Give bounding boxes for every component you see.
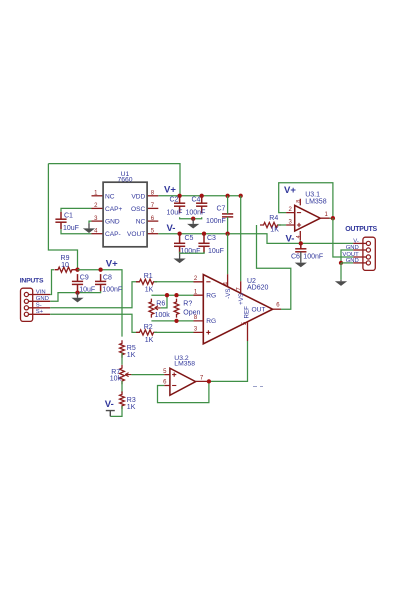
U3.1 pin stubs [286, 213, 329, 225]
IC U1 7660 body [103, 182, 147, 247]
svg-text:100nF: 100nF [303, 254, 323, 261]
svg-text:C4: C4 [192, 197, 201, 204]
wire V+ left loop down to R9 node [48, 164, 77, 270]
svg-text:7: 7 [237, 287, 243, 291]
svg-text:100nF: 100nF [206, 218, 226, 225]
wire AD620 OUT up to R4 [257, 225, 291, 309]
connector INPUTS body [21, 288, 33, 321]
svg-text:5: 5 [163, 369, 167, 375]
svg-text:GND: GND [36, 296, 49, 302]
svg-text:CAP-: CAP- [105, 231, 121, 238]
wire C9 C8 bottoms to ground node [70, 291, 101, 292]
wire S- to R1 [50, 282, 139, 308]
svg-text:1K: 1K [145, 337, 154, 344]
potentiometer R7 body [120, 365, 125, 384]
capacitor C8 [95, 274, 106, 291]
node V+ at C2 [177, 194, 181, 198]
resistor R9 [55, 267, 76, 272]
wire U3.1 feedback loop [279, 183, 333, 218]
connector OUTPUTS pin GND [353, 261, 370, 265]
in-amp U2 AD620 triangle [203, 275, 272, 344]
AD620 minus symbol [206, 281, 210, 283]
wire V+ to C7 top [227, 196, 229, 214]
svg-text:C5: C5 [185, 235, 194, 242]
pin stub AD620 REF [247, 322, 249, 341]
capacitor C9 [72, 274, 83, 291]
capacitor C6 [295, 243, 306, 251]
svg-text:V-: V- [353, 238, 359, 244]
svg-text:C7: C7 [217, 206, 226, 213]
svg-text:C9: C9 [80, 274, 89, 281]
AD620 pin names [206, 288, 265, 325]
capacitor C3 [198, 234, 209, 254]
node V- at C5 [177, 232, 181, 236]
wire V- row from U1 VOUT to OUTPUTS V- [158, 234, 353, 244]
pin stub AD620 pin 7 +VS [240, 281, 242, 293]
potentiometer R6 wiper arrow [155, 306, 161, 310]
svg-text:C1: C1 [64, 212, 73, 219]
node V- at C3 [202, 232, 206, 236]
node V+ at C4 [200, 194, 204, 198]
node U3.1 output [331, 216, 335, 220]
connector OUTPUTS body [363, 237, 375, 270]
wire VIN up to R9 [50, 270, 54, 295]
node V+ rail at C8 [98, 268, 102, 272]
wire R2 to AD620 +IN [154, 331, 194, 333]
U1 pin numbers [94, 191, 155, 235]
U1 pin names [105, 193, 146, 238]
U3.1 power pin stubs [299, 199, 301, 241]
connector INPUTS pin S- [24, 306, 50, 310]
ground under C5 [174, 253, 186, 263]
potentiometer R7 wiper arrow [125, 373, 131, 377]
AD620 plus symbol [206, 330, 210, 334]
svg-text:RG: RG [206, 318, 216, 325]
connector INPUTS pin VIN [24, 292, 50, 296]
svg-text:OSC: OSC [131, 206, 146, 213]
svg-text:R4: R4 [269, 215, 278, 222]
resistor R2 [136, 330, 157, 335]
node input ground [75, 290, 79, 294]
svg-text:LM358: LM358 [174, 361, 195, 368]
U3.2 pin numbers [163, 369, 204, 386]
svg-text:OUT: OUT [252, 307, 266, 314]
node R? top [174, 293, 178, 297]
stray marks [253, 386, 263, 388]
U3.1 pin numbers [288, 200, 328, 239]
wire C7 bottom to V- row [227, 217, 229, 234]
wire OUTPUTS GND1 down [341, 250, 353, 263]
svg-text:6: 6 [163, 380, 167, 386]
svg-text:V+: V+ [164, 185, 176, 196]
resistor R? Open [174, 299, 179, 318]
ground at OUTPUTS [335, 280, 347, 286]
svg-text:7660: 7660 [117, 177, 132, 184]
svg-text:100nF: 100nF [186, 210, 206, 217]
resistor R4 [260, 222, 281, 227]
wire S+ to R2 [50, 314, 139, 332]
svg-text:CAP+: CAP+ [105, 206, 123, 213]
connector OUTPUTS pin V- [353, 241, 370, 245]
wire RG bottom rail [151, 320, 193, 322]
svg-text:C6: C6 [291, 254, 300, 261]
node R? bottom [174, 319, 178, 323]
wire RG top rail [151, 294, 193, 296]
svg-text:INPUTS: INPUTS [20, 278, 44, 285]
wire OUTPUTS GND to ground [340, 263, 342, 280]
svg-text:1: 1 [194, 289, 198, 295]
wire V+ down to AD620 pin 7 +VS [240, 196, 242, 281]
potentiometer R6 body [149, 299, 154, 318]
U3.1 plus symbol [297, 223, 301, 227]
wire REF down to U3.2 output [209, 341, 248, 381]
svg-text:V-: V- [105, 399, 114, 410]
pin stub U1 pin 2 CAP+ [92, 207, 104, 209]
pin stub U1 pin 6 NC [147, 220, 158, 222]
capacitor C1 [55, 212, 66, 229]
svg-text:C3: C3 [207, 235, 216, 242]
svg-text:1: 1 [325, 212, 329, 218]
svg-text:1K: 1K [127, 404, 136, 411]
svg-text:6: 6 [276, 303, 280, 309]
capacitor C5 [174, 234, 185, 254]
svg-text:4: 4 [296, 235, 302, 238]
svg-text:V+: V+ [284, 185, 296, 196]
svg-text:V-: V- [286, 234, 295, 245]
wire C1 bottom to U1 CAP- [61, 229, 92, 234]
ground under C6 [295, 252, 307, 268]
pin stub U1 pin 3 GND [92, 220, 104, 222]
resistor R3 [120, 391, 125, 409]
svg-text:V-: V- [167, 223, 176, 234]
capacitor C4 [196, 196, 207, 213]
svg-text:+VS: +VS [238, 293, 245, 305]
svg-text:1K: 1K [145, 286, 154, 293]
svg-text:RG: RG [206, 292, 216, 299]
wire R1 to AD620 -IN [154, 281, 194, 283]
pin stub U1 pin 1 NC [92, 195, 104, 197]
wire V- down to AD620 pin 4 -VS [227, 234, 229, 275]
node wiper to RG rail [165, 293, 169, 297]
node C2 C4 ground [191, 217, 195, 221]
svg-text:2: 2 [194, 276, 198, 282]
ground at input filter [71, 293, 83, 303]
pin stub AD620 OUT [273, 308, 281, 310]
svg-text:10uF: 10uF [167, 210, 183, 217]
connector INPUTS pin S+ [24, 312, 50, 316]
svg-text:100nF: 100nF [181, 248, 201, 255]
node R9 / C9 / V+ rail [75, 268, 79, 272]
svg-text:REF: REF [244, 306, 251, 319]
svg-text:-VS: -VS [225, 288, 232, 298]
pin stub U1 pin 4 CAP- [92, 233, 104, 235]
svg-text:10k: 10k [110, 376, 122, 383]
svg-text:100k: 100k [155, 312, 171, 319]
svg-text:7: 7 [200, 376, 204, 382]
wire GND pin to ground node [50, 293, 70, 302]
wire R5 to R7 [121, 353, 123, 365]
capacitor C2 [174, 196, 185, 213]
wire U3.1 output to VOUT pin [333, 218, 353, 257]
svg-text:C2: C2 [170, 197, 179, 204]
svg-text:VIN: VIN [36, 289, 46, 295]
wire U1 CAP+ to C1 top [61, 208, 92, 211]
wire U1 GND pin to ground [89, 221, 92, 223]
node U3.2 output [207, 379, 211, 383]
wire R7 wiper to U3.2 +IN [131, 374, 164, 376]
svg-text:OUTPUTS: OUTPUTS [345, 226, 377, 233]
svg-text:1K: 1K [127, 352, 136, 359]
pin stub U1 pin 7 OSC [147, 207, 158, 209]
svg-text:Open: Open [183, 309, 200, 316]
U3.2 pin stubs [164, 375, 208, 386]
svg-text:R1: R1 [144, 273, 153, 280]
svg-text:10uF: 10uF [208, 248, 224, 255]
connector OUTPUTS pin GND [353, 248, 370, 252]
wire V+ rail right and down to R5 [78, 270, 123, 337]
svg-text:8: 8 [296, 200, 302, 203]
resistor R1 [136, 279, 157, 284]
pin stub U1 pin 5 VOUT [147, 233, 158, 235]
wire R4 to U3.1 +IN [278, 224, 286, 226]
node OUTPUTS GND [339, 261, 343, 265]
wire R6 wiper to RG top [161, 295, 167, 308]
U3.2 minus symbol [172, 385, 176, 387]
svg-text:1K: 1K [270, 227, 279, 234]
capacitor C7 [222, 214, 233, 217]
svg-text:C8: C8 [103, 274, 112, 281]
svg-text:GND: GND [105, 219, 120, 226]
op-amp U3.1 LM358 triangle [295, 205, 321, 231]
svg-text:V+: V+ [106, 258, 118, 269]
svg-text:R?: R? [183, 301, 192, 308]
U3.1 minus symbol [297, 212, 301, 214]
wire U3.2 feedback loop [158, 381, 209, 402]
connector OUTPUTS pin VOUT [353, 255, 370, 259]
supply V- symbol bottom [106, 411, 115, 417]
wire V+ row from U1 VDD [158, 195, 240, 197]
svg-text:VOUT: VOUT [127, 231, 145, 238]
svg-text:R6: R6 [156, 301, 165, 308]
svg-text:VDD: VDD [131, 193, 145, 200]
svg-text:10: 10 [61, 262, 69, 269]
svg-text:10uF: 10uF [63, 225, 79, 232]
svg-text:100nF: 100nF [102, 287, 122, 294]
svg-text:AD620: AD620 [247, 284, 269, 291]
svg-text:3: 3 [194, 327, 198, 333]
wire R3 to V- supply [110, 406, 122, 417]
AD620 pin numbers [194, 276, 280, 333]
wire C2 C4 bottoms join [180, 217, 202, 219]
pin stub U1 pin 8 VDD [147, 195, 158, 197]
svg-text:R2: R2 [144, 324, 153, 331]
wire to OUTPUTS GND2 [341, 262, 353, 264]
wire R7 to R3 [121, 381, 123, 393]
AD620 pin stubs left [194, 282, 204, 333]
svg-text:S+: S+ [36, 309, 44, 315]
node V+ at AD620 +VS drop [239, 194, 243, 198]
svg-text:NC: NC [136, 219, 146, 226]
U3.2 plus symbol [172, 373, 176, 377]
node V- at C7 bottom / AD620 -VS [225, 232, 229, 236]
pin stub AD620 pin 4 -VS [227, 274, 229, 287]
wire V+ top loop to C2 node [48, 164, 180, 196]
ground under C2 C4 [187, 219, 199, 229]
wire U3.1 pin4 to V- rail [299, 240, 301, 243]
node V+ at C7 [225, 194, 229, 198]
resistor R5 [120, 340, 125, 358]
op-amp U3.2 LM358 triangle [170, 368, 196, 395]
svg-text:LM358: LM358 [305, 198, 327, 205]
connector INPUTS pin GND [24, 299, 50, 303]
svg-text:4: 4 [224, 281, 230, 285]
wire C5 C3 bottoms join [180, 252, 204, 254]
node V- at U3.1 / C6 [299, 241, 303, 245]
svg-text:S-: S- [36, 303, 42, 309]
svg-text:NC: NC [105, 193, 115, 200]
ground at U1 pin 3 [83, 223, 95, 233]
